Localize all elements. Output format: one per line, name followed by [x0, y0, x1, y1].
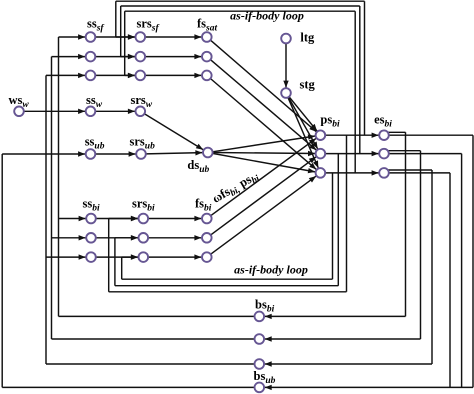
label ps_bi [320, 112, 340, 129]
wire srs_sf1 to fs_sat1 [145, 34, 201, 39]
wire ss_w to srs_w [95, 109, 135, 114]
wire es2 to bs_ub [389, 154, 462, 388]
wire es3 to bs_ub [389, 173, 450, 388]
label ss_ub [85, 134, 105, 151]
label es_bi [374, 112, 392, 129]
wire as-if loop ps2 to srsf2 (top) [121, 6, 360, 154]
node ss_sf2 [86, 52, 96, 62]
wire fs_sat2 to ps_bi2 [211, 60, 317, 150]
wire ss_bi2 to srs_bi2 [96, 235, 138, 240]
node srs_sf2 [136, 52, 146, 62]
node es_bi1 [379, 130, 389, 140]
node srs_w [136, 107, 146, 117]
node srs_bi2 [139, 233, 149, 243]
wire srs_bi2 to fs_bi2 [148, 235, 201, 240]
wire ds_ub to ps_bi3 [213, 153, 316, 173]
label ltg [300, 31, 315, 45]
node srs_sf3 [136, 71, 146, 81]
wire srs_sf2 to fs_sat2 [145, 54, 201, 59]
wire ps_bi3 to es_bi3 [325, 170, 378, 175]
label omega fs_bi ps_bi (rotated) [210, 168, 262, 208]
node es_bi3 [379, 168, 389, 178]
node ps_bi3 [316, 168, 326, 178]
svg-text:as-if-body loop: as-if-body loop [230, 8, 304, 22]
label ss_bi [83, 197, 100, 214]
label bs_bi [255, 298, 275, 315]
node srs_sf1 [136, 32, 146, 42]
wire as-if loop ps1 to srsf1 (top) [116, 1, 365, 135]
svg-text:as-if-body loop: as-if-body loop [234, 263, 308, 277]
node fs_bi2 [202, 233, 212, 243]
wire ss_ub to srs_ub [95, 151, 135, 156]
wire stg to ps_bi2 [288, 97, 317, 149]
label bs_ub [254, 369, 276, 386]
svg-text:stg: stg [300, 77, 316, 91]
node ss_bi2 [86, 233, 96, 243]
wire ss_sf3 to srs_sf3 [95, 73, 135, 78]
label ss_sf [87, 16, 104, 33]
wire bs1 to ssf1 [59, 34, 255, 316]
node ps_bi1 [316, 130, 326, 140]
node fs_bi3 [202, 252, 212, 262]
node bs_bi2 [254, 334, 264, 344]
wire stg to ps_bi1 [289, 97, 317, 131]
node ss_sf3 [86, 71, 96, 81]
wire as-if loop ps3 to srsb3 (bottom) [122, 173, 333, 279]
wire as-if loop ps3 to srsf3 (top) [125, 11, 356, 173]
label fs_sat [197, 16, 217, 33]
wire stg to ps_bi3 [288, 97, 318, 167]
wire fs_bi3 to ps_bi3 [211, 176, 316, 254]
label srs_w [131, 93, 153, 110]
label srs_ub [130, 134, 156, 151]
wire bs2 to ssf2 [52, 54, 255, 339]
wire ltg to stg [283, 43, 288, 87]
node es_bi2 [379, 149, 389, 159]
node fs_sat3 [202, 71, 212, 81]
wire srs_ub to ds_ub [146, 150, 203, 155]
node ss_bi3 [86, 252, 96, 262]
node ss_ub [86, 149, 96, 159]
wire ws_w to ss_w [24, 109, 85, 114]
wire bs3 branch to ssb3 [46, 254, 86, 259]
node ws_w [14, 107, 24, 117]
node srs_bi3 [139, 252, 149, 262]
node ss_w [86, 107, 96, 117]
wire ps_bi2 to es_bi2 [325, 151, 378, 156]
node ds_ub [203, 148, 213, 158]
wire ss_bi3 to srs_bi3 [96, 254, 138, 259]
wire ds_ub to ps_bi1 [213, 134, 316, 151]
wire es1 to bs_ub [389, 135, 473, 387]
node ss_bi1 [86, 214, 96, 224]
wire bs3 to ssf3 [46, 73, 255, 364]
node ltg [281, 34, 291, 44]
label as-if-body loop (bottom) [234, 263, 308, 277]
wire srs_bi3 to fs_bi3 [148, 254, 201, 259]
node stg [281, 88, 291, 98]
node fs_sat1 [202, 32, 212, 42]
wire fs_sat3 to ps_bi3 [210, 79, 316, 170]
label fs_bi [195, 197, 212, 214]
wire srs_w to ds_ub [144, 114, 203, 150]
wire ps_bi1 to es_bi1 [325, 133, 378, 138]
wire fs_sat1 to ps_bi1 [210, 40, 316, 132]
wire into bs_ub (bottom feedback) [265, 385, 473, 390]
node srs_ub [136, 149, 146, 159]
label as-if-body loop (top) [230, 8, 304, 22]
label ws_w [9, 93, 30, 110]
wire es2 to bs2 [265, 151, 421, 342]
wire as-if loop ps1 to srsb1 (bottom) [109, 135, 347, 292]
wire ss_sf1 to srs_sf1 [95, 34, 135, 39]
node ps_bi2 [316, 149, 326, 159]
wire srs_sf3 to fs_sat3 [145, 73, 201, 78]
node srs_bi1 [139, 214, 149, 224]
node bs_bi3 [254, 359, 264, 369]
label ss_w [86, 93, 103, 110]
node bs_ub [254, 383, 264, 393]
wire ss_sf2 to srs_sf2 [95, 54, 135, 59]
wire fs_bi2 to ps_bi2 [211, 157, 316, 235]
label stg [300, 77, 316, 91]
node ss_sf1 [86, 32, 96, 42]
svg-text:ltg: ltg [300, 31, 315, 45]
wire bs_ub to ss_ub [2, 151, 254, 387]
wire bs2 branch to ssb2 [52, 235, 86, 240]
wire as-if loop ps2 to srsb2 (bottom) [115, 154, 338, 286]
wire srs_bi1 to fs_bi1 [148, 216, 201, 221]
label srs_bi [132, 197, 155, 214]
wire ds_ub to ps_bi2 [213, 151, 315, 156]
wire ss_bi1 to srs_bi1 [96, 216, 138, 221]
wire fs_bi1 to ps_bi1 [211, 138, 316, 215]
wire bs1 branch to ssb1 [59, 216, 86, 221]
label srs_sf [137, 16, 160, 33]
wire es1 to bs1 [265, 132, 406, 319]
label ds_ub [187, 158, 209, 175]
wire es3 to bs3 [265, 170, 432, 367]
node fs_bi1 [202, 214, 212, 224]
node bs_bi1 [254, 312, 264, 322]
node fs_sat2 [202, 52, 212, 62]
